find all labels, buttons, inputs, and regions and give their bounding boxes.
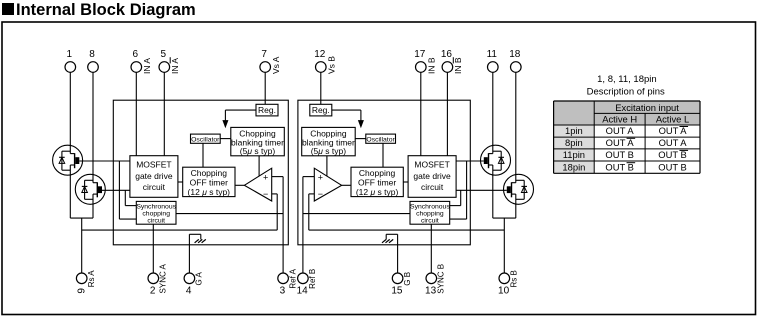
wire: Reg B to blanking timer arrow: [332, 110, 363, 127]
svg-text:2: 2: [150, 286, 156, 297]
svg-text:MOSFET: MOSFET: [136, 159, 171, 169]
svg-text:Ref B: Ref B: [308, 269, 317, 289]
svg-text:12: 12: [314, 49, 326, 60]
svg-text:6: 6: [133, 49, 139, 60]
wire: Q2 source down: [92, 204, 94, 218]
wire: Reg A to blanking timer arrow: [223, 110, 256, 127]
svg-text:15: 15: [391, 286, 403, 297]
pin 4 (bottom): [184, 271, 204, 296]
svg-text:Internal Block Diagram: Internal Block Diagram: [16, 1, 196, 19]
svg-text:IN B: IN B: [453, 57, 463, 74]
svg-text:+: +: [318, 173, 323, 183]
svg-text:(5μ s typ): (5μ s typ): [240, 146, 276, 156]
svg-text:IN B: IN B: [426, 57, 436, 74]
wire: blanking timer A to comparator A: [258, 156, 260, 176]
svg-text:SYNC A: SYNC A: [159, 263, 168, 293]
svg-text:G B: G B: [403, 272, 412, 286]
pin 13 (bottom): [425, 264, 446, 297]
wire: Rs A to pin9: [81, 218, 83, 273]
svg-text:4: 4: [186, 286, 192, 297]
svg-text:OUT A: OUT A: [659, 137, 688, 148]
pin 10 (bottom): [498, 270, 519, 296]
wire: gate drive A to OFF timer A: [178, 181, 183, 183]
wire: pin6 INA to gate drive A: [135, 72, 137, 155]
wire: Q1 gate to gate drive A: [79, 160, 130, 162]
wire: Q2 gate net to synchronous chopping A: [125, 190, 136, 205]
svg-text:Active H: Active H: [602, 114, 637, 125]
wire: Q4 gate to gate drive B: [456, 189, 507, 191]
svg-text:Synchronous: Synchronous: [136, 204, 176, 211]
svg-text:7: 7: [261, 49, 267, 60]
wire: Q4 gate net to synchronous chopping B: [450, 190, 461, 205]
svg-text:16: 16: [441, 49, 453, 60]
title: Internal Block Diagram: [2, 1, 196, 19]
svg-text:1pin: 1pin: [565, 125, 583, 136]
pin 8 (top): [88, 49, 99, 73]
block boundary box B: [298, 100, 470, 245]
wire: pin7 VsA to Reg A: [264, 72, 266, 104]
wire: pin1 to Q1 drain: [69, 72, 71, 145]
wire: pin11 to Q3 drain: [492, 72, 494, 145]
block: Synchronous chopping circuit (B): [410, 201, 450, 224]
svg-text:(12 μ s typ): (12 μ s typ): [356, 187, 399, 197]
svg-text:Rs B: Rs B: [510, 270, 519, 287]
svg-text:OUT B: OUT B: [658, 161, 686, 172]
pin 17 (top): [414, 49, 436, 74]
wire: pin5 INA-bar to gate drive A: [163, 72, 165, 155]
wire: pin4 GA to box A: [188, 245, 190, 273]
transistor Q2: [75, 174, 105, 205]
svg-text:(5μ s typ): (5μ s typ): [311, 146, 347, 156]
svg-text:9: 9: [77, 288, 88, 294]
wire: Q3 source down: [492, 175, 494, 218]
svg-text:circuit: circuit: [147, 218, 165, 225]
wire: pin12 VsB to Reg B: [320, 72, 322, 104]
svg-text:10: 10: [498, 286, 510, 297]
wire: Q1 source down: [69, 175, 71, 218]
block: Oscillator (B): [366, 134, 396, 143]
wire: synchronous chopping A to Ref A net: [176, 213, 283, 215]
wire: OFF timer B to comparator B apex: [342, 184, 351, 186]
svg-text:13: 13: [425, 286, 437, 297]
pin 14 (bottom): [297, 269, 318, 297]
svg-text:Vs B: Vs B: [326, 56, 336, 74]
svg-text:−: −: [318, 189, 323, 199]
wire: pin18 to Q4 drain: [515, 72, 517, 174]
wire: gate drive B to OFF timer B: [403, 181, 408, 183]
pin 16 (top): [441, 49, 463, 74]
svg-text:chopping: chopping: [416, 211, 444, 218]
pin 18 (top): [509, 49, 521, 73]
svg-text:Oscillator: Oscillator: [191, 136, 220, 143]
transistor Q3: [481, 145, 511, 176]
svg-text:MOSFET: MOSFET: [414, 159, 449, 169]
svg-text:18: 18: [509, 49, 521, 60]
pin 5 (top): [159, 49, 180, 74]
svg-text:(12 μ s typ): (12 μ s typ): [188, 187, 231, 197]
wire: Q3 gate to gate drive B: [456, 160, 484, 162]
wire: comparator A minus input to Rs A sense: [82, 194, 278, 230]
svg-text:Excitation input: Excitation input: [615, 102, 679, 113]
ground B: [382, 234, 398, 245]
pin 7 (top): [260, 49, 281, 74]
block: MOSFET gate drive circuit (A): [130, 156, 178, 198]
svg-text:Oscillator: Oscillator: [366, 136, 395, 143]
block: Chopping OFF timer 12us (B): [351, 167, 403, 197]
wire: OFF timer A to comparator A apex: [235, 184, 244, 186]
svg-text:Synchronous: Synchronous: [410, 204, 450, 211]
svg-text:OUT A: OUT A: [606, 125, 635, 136]
ground A: [189, 234, 205, 245]
svg-text:gate drive: gate drive: [135, 171, 173, 181]
wire: Rs B to pin10: [503, 218, 505, 273]
block: Reg. (A): [256, 104, 278, 116]
svg-text:Description of pins: Description of pins: [587, 86, 665, 97]
svg-text:18pin: 18pin: [562, 161, 585, 172]
svg-text:1: 1: [67, 49, 73, 60]
wire: oscillator A to OFF timer A: [202, 143, 204, 167]
wire: synchronous chopping A to pin2 SYNC A: [152, 224, 154, 273]
wire: comparator B plus input to Ref B / pin14: [303, 177, 314, 273]
wire: oscillator A to blanking timer A: [220, 138, 231, 140]
svg-text:1, 8, 11, 18pin: 1, 8, 11, 18pin: [597, 74, 657, 85]
wire: pin17 INB to gate drive B: [420, 72, 422, 155]
pin 12 (top): [314, 49, 336, 74]
op-amp comparator B: [314, 168, 341, 201]
wire: Q2 gate to gate drive A: [102, 189, 130, 191]
svg-text:8pin: 8pin: [565, 137, 583, 148]
svg-text:3: 3: [280, 286, 286, 297]
wire: synchronous chopping B to pin13 SYNC B: [430, 224, 432, 273]
svg-text:11: 11: [487, 49, 498, 60]
svg-text:SYNC B: SYNC B: [437, 264, 446, 294]
wire: comparator B minus input to Rs B sense: [309, 194, 505, 230]
wire: Q1 gate net to synchronous chopping A: [119, 161, 136, 219]
pin 9 (bottom): [76, 270, 96, 294]
svg-text:Reg.: Reg.: [312, 105, 330, 115]
node: pin description table: [554, 74, 700, 174]
wire: Q4 source down: [515, 204, 517, 218]
svg-text:G A: G A: [195, 271, 204, 285]
op-amp comparator A: [244, 168, 271, 201]
pin 2 (bottom): [148, 263, 168, 296]
svg-text:IN A: IN A: [142, 58, 152, 74]
block: Reg. (B): [310, 104, 332, 116]
pin 1 (top): [65, 49, 76, 73]
transistor Q4: [504, 174, 534, 205]
wire: pin8 to Q2 drain: [92, 72, 94, 174]
svg-text:Rs A: Rs A: [87, 270, 96, 288]
pin 6 (top): [131, 49, 152, 74]
wire: synchronous chopping B to Ref B net: [303, 213, 410, 215]
wire: blanking timer B to comparator B: [326, 156, 328, 176]
svg-text:OUT B: OUT B: [605, 149, 633, 160]
block: Oscillator (A): [191, 134, 221, 143]
svg-text:circuit: circuit: [143, 182, 166, 192]
svg-text:circuit: circuit: [421, 182, 444, 192]
wire: Q3 gate net to synchronous chopping B: [450, 161, 467, 219]
svg-text:chopping: chopping: [142, 211, 170, 218]
svg-text:IN A: IN A: [170, 58, 180, 74]
svg-text:Reg.: Reg.: [258, 105, 276, 115]
svg-text:14: 14: [297, 286, 309, 297]
svg-text:circuit: circuit: [421, 218, 439, 225]
block boundary box A: [113, 100, 288, 245]
wire: pin16 INB-bar to gate drive B: [446, 72, 448, 155]
svg-text:gate drive: gate drive: [413, 171, 451, 181]
wire: oscillator B to blanking timer B: [355, 138, 366, 140]
svg-text:5: 5: [161, 49, 167, 60]
block: MOSFET gate drive circuit (B): [408, 156, 456, 198]
wire: comparator A plus input to Ref A / pin3: [272, 177, 283, 273]
wire: oscillator B to OFF timer B: [382, 143, 384, 167]
svg-text:Active L: Active L: [656, 114, 689, 125]
pin 11 (top): [487, 49, 498, 73]
wire: source join bar A: [70, 217, 93, 219]
block: Chopping blanking timer 5us (B): [302, 127, 356, 156]
svg-text:Vs A: Vs A: [271, 56, 281, 74]
svg-text:8: 8: [89, 49, 95, 60]
svg-text:11pin: 11pin: [563, 149, 585, 160]
block: Chopping OFF timer 12us (A): [183, 167, 235, 197]
pin 3 (bottom): [278, 268, 298, 296]
wire: source join bar B: [493, 217, 516, 219]
block: Synchronous chopping circuit (A): [136, 201, 176, 224]
svg-text:+: +: [263, 173, 268, 183]
svg-text:−: −: [263, 189, 268, 199]
wire: pin15 GB to box B: [397, 245, 399, 273]
transistor Q1: [53, 145, 83, 176]
svg-text:17: 17: [414, 49, 426, 60]
block: Chopping blanking timer 5us (A): [231, 127, 284, 156]
pin 15 (bottom): [391, 272, 412, 297]
